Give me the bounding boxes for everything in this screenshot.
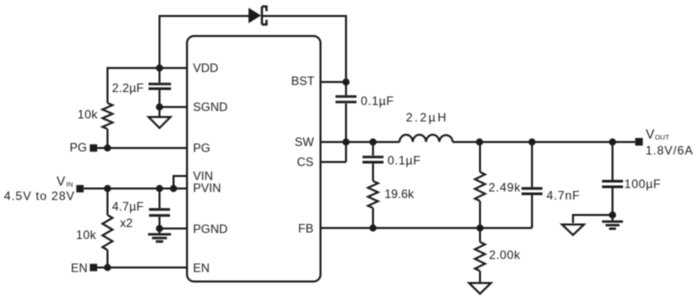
svg-text:PVIN: PVIN xyxy=(193,181,221,195)
svg-text:0.1µF: 0.1µF xyxy=(388,154,421,168)
svg-text:10k: 10k xyxy=(78,108,99,122)
svg-text:EN: EN xyxy=(193,261,210,275)
svg-text:2.2µF: 2.2µF xyxy=(112,81,144,95)
svg-text:4.7nF: 4.7nF xyxy=(547,189,581,203)
svg-text:PG: PG xyxy=(193,141,210,155)
svg-text:1.8V/6A: 1.8V/6A xyxy=(646,144,693,158)
svg-text:EN: EN xyxy=(71,261,88,275)
svg-text:100µF: 100µF xyxy=(624,177,661,191)
svg-text:0.1µF: 0.1µF xyxy=(361,94,394,108)
svg-text:x2: x2 xyxy=(120,216,133,230)
svg-text:SGND: SGND xyxy=(193,100,228,114)
svg-text:2.49k: 2.49k xyxy=(489,180,522,194)
svg-text:CS: CS xyxy=(297,155,314,169)
svg-text:PGND: PGND xyxy=(193,222,228,236)
svg-text:V: V xyxy=(57,174,66,189)
svg-text:PG: PG xyxy=(70,140,87,154)
svg-text:4.7µF: 4.7µF xyxy=(112,199,144,213)
svg-text:19.6k: 19.6k xyxy=(385,187,415,201)
svg-text:4.5V to 28V: 4.5V to 28V xyxy=(4,189,75,203)
svg-text:2.00k: 2.00k xyxy=(489,248,521,262)
svg-text:SW: SW xyxy=(295,135,315,149)
svg-text:10k: 10k xyxy=(76,228,97,242)
svg-text:2.2µH: 2.2µH xyxy=(406,110,448,124)
svg-text:IN: IN xyxy=(66,181,73,188)
svg-text:OUT: OUT xyxy=(655,135,669,142)
svg-text:V: V xyxy=(646,126,655,141)
svg-text:FB: FB xyxy=(298,221,313,235)
svg-text:VDD: VDD xyxy=(193,61,219,75)
svg-text:BST: BST xyxy=(291,74,315,88)
